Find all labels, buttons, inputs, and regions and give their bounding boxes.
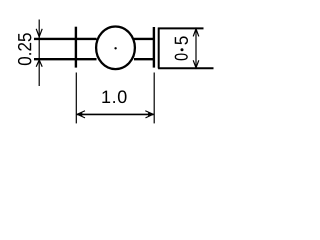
land rectangle left edge [158, 28, 160, 69]
dimension 0.5 line [195, 29, 197, 68]
dimension 0.25 bottom arrow [36, 60, 42, 67]
center dot [114, 47, 116, 49]
label 0.25 (rotated) [18, 33, 31, 65]
dimension 0.5 top arrow [193, 29, 199, 37]
dimension 0.5 bottom arrow [193, 60, 199, 68]
dimension 1.0 left arrow [77, 111, 85, 118]
dimension 0.25 line [38, 20, 40, 87]
dimension 1.0 line [77, 113, 154, 115]
right pad edge [153, 27, 155, 68]
component body circle [96, 27, 135, 70]
label 0.5 (rotated) glyph 0 [175, 53, 188, 60]
label 0.5 (rotated) glyph 5 [175, 36, 188, 44]
land rectangle top edge [158, 27, 203, 29]
dimension 1.0 left extension line [75, 73, 77, 124]
right trace top edge [134, 38, 155, 40]
dimension 0.25 top arrow [36, 29, 42, 37]
right trace bottom edge [134, 58, 155, 60]
dimension 1.0 right arrow [145, 111, 153, 118]
left pad edge [75, 27, 77, 68]
trace bottom edge with left extension line [34, 58, 97, 60]
label 1.0 [102, 90, 126, 103]
label 0.5 decimal point [181, 48, 184, 51]
dimension 1.0 right extension line [153, 73, 155, 124]
trace top edge with left extension line [34, 38, 97, 40]
land rectangle bottom edge [158, 67, 213, 69]
